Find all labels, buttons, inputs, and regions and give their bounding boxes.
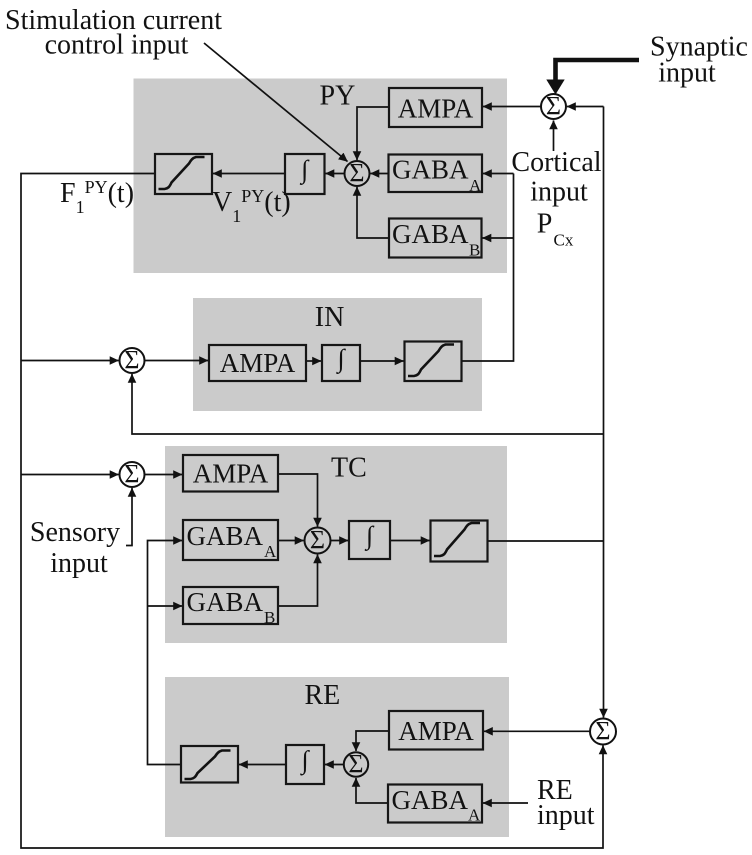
wire IN output vertical rail x=513.5 up to PY GABA boxes — [462, 174, 514, 362]
wire RE input into RE GABA_A — [483, 802, 528, 804]
svg-text:PY: PY — [320, 81, 356, 112]
sum node TC mid (sigma) — [305, 528, 331, 554]
svg-text:Cx: Cx — [554, 231, 574, 250]
wire RE right sum to RE AMPA — [484, 730, 590, 732]
box PY integrator — [285, 154, 325, 194]
box PY GABA_B — [389, 219, 482, 258]
svg-text:Σ: Σ — [348, 750, 363, 779]
svg-text:F1PY(t): F1PY(t) — [60, 177, 134, 217]
svg-text:TC: TC — [331, 453, 367, 484]
svg-text:B: B — [469, 241, 480, 260]
svg-text:Σ: Σ — [595, 717, 610, 746]
box PY AMPA — [389, 88, 482, 127]
sum node top (synaptic/cortical) — [541, 94, 566, 119]
wire right rail into top sum — [567, 106, 604, 108]
svg-text:IN: IN — [315, 302, 345, 333]
svg-text:Σ: Σ — [124, 346, 139, 375]
wire PY integrator to PY sigmoid — [213, 173, 285, 175]
wire RE mid sum to RE integrator — [325, 764, 344, 766]
wire RE AMPA to RE mid sum (from top) — [356, 731, 389, 751]
svg-text:Cortical: Cortical — [511, 147, 601, 178]
svg-text:GABA: GABA — [187, 521, 264, 551]
wire sensory input elbow up into TC sum (bottom) — [126, 488, 132, 546]
svg-text:GABA: GABA — [187, 587, 264, 617]
svg-text:Σ: Σ — [349, 159, 364, 188]
box TC GABA_B — [183, 587, 278, 624]
sum node TC input (sigma) — [120, 462, 145, 487]
wire cortical input up into top sum — [553, 121, 555, 152]
svg-text:input: input — [658, 58, 716, 89]
svg-text:RE: RE — [305, 680, 341, 711]
svg-text:control input: control input — [45, 30, 189, 61]
wire IN AMPA to IN integrator — [306, 360, 321, 362]
wire RE integrator to RE sigmoid — [239, 764, 286, 766]
wire TC GABA_A to TC mid sum — [278, 540, 304, 542]
wire RE feedback branch into TC GABA_B — [148, 605, 183, 607]
box IN integrator — [322, 345, 360, 381]
sum node PY (sigma) — [345, 161, 370, 186]
sum node IN input (sigma) — [120, 348, 145, 373]
wire TC sum to TC AMPA — [145, 474, 183, 476]
box PY GABA_A — [389, 155, 483, 193]
box RE sigmoid — [181, 746, 238, 783]
wire PY output left rail: sigmoid F1 out, down left side, along bottom, up into RE sum (bottom) — [21, 174, 603, 849]
wire RE sigmoid output up into TC GABA_A — [148, 541, 183, 765]
wire branch left rail into TC sum — [21, 474, 119, 476]
box IN AMPA — [209, 345, 306, 381]
svg-text:Σ: Σ — [124, 460, 139, 489]
box RE AMPA — [389, 711, 483, 750]
wire right rail TC output: down from top sum corner to RE sum (top) — [603, 107, 605, 718]
RE population gray block — [165, 677, 509, 837]
wire IN rail into PY GABA_A — [483, 173, 514, 175]
wire TC integrator to TC sigmoid — [390, 540, 430, 542]
wire PY AMPA to PY sum (from top) — [357, 107, 389, 160]
wire IN rail into PY GABA_B — [483, 237, 514, 239]
box TC AMPA — [183, 455, 278, 492]
wire stimulation current diagonal into PY sum — [204, 43, 348, 162]
box TC sigmoid — [431, 521, 488, 562]
box IN sigmoid — [405, 342, 462, 382]
svg-text:AMPA: AMPA — [193, 459, 269, 489]
sum node RE right (sigma) — [590, 719, 616, 745]
box TC integrator — [349, 521, 390, 559]
wire TC sigmoid output to right rail — [488, 540, 604, 542]
box TC GABA_A — [183, 520, 278, 560]
TC population gray block — [165, 446, 507, 643]
svg-text:AMPA: AMPA — [220, 348, 296, 378]
svg-text:AMPA: AMPA — [398, 716, 474, 746]
curve IN sigmoid — [408, 345, 454, 377]
wire IN integrator to IN sigmoid — [360, 360, 404, 362]
svg-text:input: input — [537, 800, 595, 831]
wire branch left rail into IN sum — [21, 360, 119, 362]
svg-text:input: input — [530, 177, 588, 208]
wire PY GABA_B to PY sum (from bottom) — [357, 187, 389, 238]
wire TC AMPA to TC mid sum (from top) — [278, 474, 318, 527]
wire PY GABA_A to PY sum — [371, 173, 389, 175]
curve PY sigmoid — [159, 157, 205, 189]
curve TC sigmoid — [434, 523, 480, 556]
svg-text:GABA: GABA — [392, 155, 469, 185]
curve RE sigmoid — [185, 751, 231, 780]
box RE integrator — [286, 745, 324, 784]
wire feedback row y=434 from right rail up into IN sum (bottom) — [132, 374, 604, 434]
svg-text:A: A — [264, 542, 277, 561]
wire IN sum to IN AMPA — [145, 360, 209, 362]
box PY sigmoid F1 — [155, 154, 212, 194]
box RE GABA_A — [388, 785, 482, 823]
svg-text:AMPA: AMPA — [398, 94, 474, 124]
IN population gray block — [193, 298, 482, 411]
svg-text:B: B — [264, 608, 275, 627]
svg-text:A: A — [468, 806, 481, 825]
svg-text:P: P — [537, 209, 553, 240]
wire TC GABA_B to TC mid sum (from bottom) — [278, 555, 318, 607]
arrowhead synaptic input (large) — [546, 80, 564, 95]
svg-text:Σ: Σ — [310, 526, 325, 555]
wire TC mid sum to TC integrator — [331, 540, 349, 542]
wire synaptic input thick elbow — [556, 60, 640, 81]
svg-text:GABA: GABA — [392, 785, 469, 815]
wire PY sum to PY integrator — [326, 173, 345, 175]
svg-text:Σ: Σ — [546, 92, 561, 121]
svg-text:input: input — [50, 548, 108, 579]
svg-text:A: A — [469, 176, 482, 195]
PY population gray block — [134, 79, 508, 274]
svg-text:Sensory: Sensory — [30, 517, 120, 548]
sum node RE mid (sigma) — [344, 752, 368, 776]
wire RE GABA_A to RE mid sum (from bottom) — [356, 778, 388, 803]
svg-text:GABA: GABA — [392, 219, 469, 249]
wire top sum to PY AMPA — [483, 106, 541, 108]
